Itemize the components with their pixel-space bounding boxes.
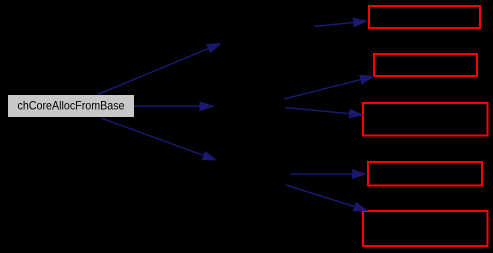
red box 1 (top right node, truncated) [369,6,480,28]
edge from node C to red box 4 [290,169,367,179]
edge from node C to red box 5 [286,185,369,211]
red box 2 [374,54,477,76]
edge from chCoreAllocFromBase to node B (middle horizontal arrow) [134,101,215,111]
node chCoreAllocFromBase (grey filled box with label) [8,95,134,117]
red box 5 (two-line node) [363,211,488,246]
edge from chCoreAllocFromBase to node C (lower arrow) [101,118,218,161]
edge from node B to red box 2 [284,75,375,99]
svg-text:chCoreAllocFromBase: chCoreAllocFromBase [18,99,125,113]
edge from chCoreAllocFromBase to node A (upper arrow) [98,43,223,95]
red box 3 (two-line node) [363,103,488,136]
red box 4 [368,162,482,186]
edge from node B to red box 3 [285,108,364,119]
edge from node A to red box 1 [314,18,368,28]
